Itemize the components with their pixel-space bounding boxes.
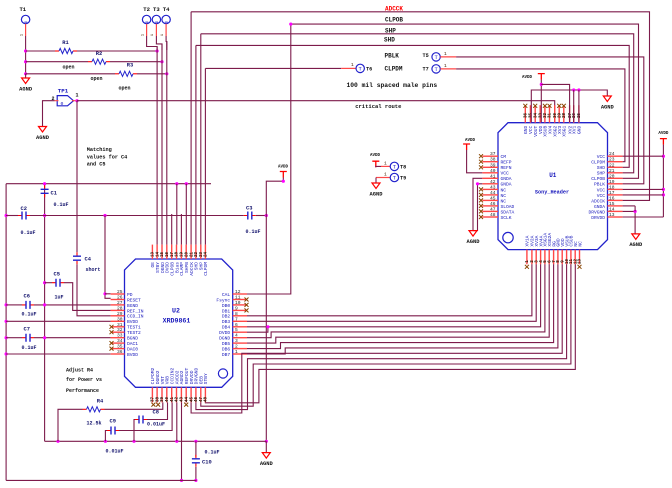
svg-text:AGND: AGND xyxy=(601,104,615,110)
no-connect X on U2 bottom pin xyxy=(156,403,160,407)
junction R1/T2 vertical xyxy=(156,49,159,52)
pin 11 of U1 bottom xyxy=(570,250,572,265)
pin 39 of U2 bottom xyxy=(161,387,163,402)
wire R4 left xyxy=(58,409,83,441)
svg-text:18: 18 xyxy=(176,252,180,258)
pin 45 of U2 bottom xyxy=(190,387,192,402)
svg-text:AGND: AGND xyxy=(467,239,481,245)
svg-text:T7: T7 xyxy=(423,67,429,73)
svg-text:2: 2 xyxy=(235,344,238,350)
svg-text:32: 32 xyxy=(544,113,548,119)
svg-text:T3: T3 xyxy=(153,6,160,13)
svg-text:28: 28 xyxy=(117,305,123,311)
wire BVDD horizontal rail y183 xyxy=(6,183,211,185)
wire T4 jog to vertical xyxy=(165,36,168,50)
wire U1 DRVGND to AGND xyxy=(623,211,636,234)
junction C10 top xyxy=(194,440,197,443)
pin 38 REFP of U1 xyxy=(482,161,498,163)
wire U2 bottom pin6 to AGND rail xyxy=(176,402,178,441)
junction VCC17 xyxy=(662,193,665,196)
svg-text:30: 30 xyxy=(554,113,558,119)
junction rail/C6 xyxy=(43,303,46,306)
pin 23 of U2 top xyxy=(200,245,202,259)
wire U1 VCC17 to AVDD xyxy=(623,194,664,196)
svg-text:41: 41 xyxy=(171,397,175,403)
pin 1 stub of T2 xyxy=(146,24,148,36)
junction R2/T3 vertical xyxy=(160,60,163,63)
svg-text:1uF: 1uF xyxy=(55,295,64,301)
svg-text:XV4: XV4 xyxy=(547,125,553,134)
pin 43 NC of U1 xyxy=(482,188,498,190)
svg-text:1: 1 xyxy=(351,62,354,68)
svg-text:43: 43 xyxy=(490,184,496,190)
junction R4 branch xyxy=(56,440,59,443)
svg-text:1: 1 xyxy=(384,172,387,178)
svg-text:CLPDM: CLPDM xyxy=(385,65,403,72)
pin 41 of U2 bottom xyxy=(171,387,173,402)
svg-text:39: 39 xyxy=(161,397,165,403)
no-connect X on U1 left pin xyxy=(479,209,483,213)
svg-text:AVDD: AVDD xyxy=(658,132,669,136)
wire data bus net DB6 U2 to U1 xyxy=(247,264,554,348)
svg-text:37: 37 xyxy=(152,397,156,403)
wire to AGND bottom center xyxy=(265,441,267,452)
svg-text:29: 29 xyxy=(117,311,123,317)
pin 8 DB2 of U2 xyxy=(233,315,247,317)
ground AGND xyxy=(632,234,640,240)
resistor R1 xyxy=(55,50,59,52)
no-connect X on U2 right pin xyxy=(245,308,249,312)
svg-text:TEST1: TEST1 xyxy=(127,325,141,331)
capacitor C1 xyxy=(44,185,46,197)
svg-text:46: 46 xyxy=(490,201,496,207)
pin 2 of U1 bottom xyxy=(531,250,533,265)
svg-text:BVDD: BVDD xyxy=(127,319,138,325)
pin 35 of U1 top xyxy=(529,105,531,123)
wire bottom rail y480 xyxy=(6,479,196,481)
svg-text:36: 36 xyxy=(117,349,123,355)
no-connect X on U2 left pin xyxy=(110,347,114,351)
pin 32 of U1 top xyxy=(544,105,546,123)
svg-text:0.1uF: 0.1uF xyxy=(22,312,37,318)
svg-text:21: 21 xyxy=(609,168,615,174)
svg-text:DRVDD: DRVDD xyxy=(591,215,605,221)
svg-text:DB3: DB3 xyxy=(222,319,231,325)
pin 42 of U2 bottom xyxy=(176,387,178,402)
pin 1 of U1 bottom xyxy=(526,250,528,265)
wire C8 to U2 bottom pin4 xyxy=(147,402,168,419)
pin 44 of U2 bottom xyxy=(185,387,187,402)
wire U1 VCC24 to AVDD xyxy=(623,155,664,157)
svg-text:SDATA: SDATA xyxy=(501,209,515,215)
svg-text:38: 38 xyxy=(490,157,496,163)
junction C10 bottom rail xyxy=(194,479,197,482)
svg-text:VCC: VCC xyxy=(597,193,606,199)
svg-text:0.1uF: 0.1uF xyxy=(54,202,69,208)
connector U1 Sony_Header body xyxy=(498,123,608,250)
svg-text:1: 1 xyxy=(444,63,447,69)
pin 22 SHD of U1 xyxy=(608,166,623,168)
ground AGND xyxy=(22,78,30,84)
wire stub U2 top pin7 xyxy=(180,214,182,245)
pin 37 CM of U1 xyxy=(482,155,498,157)
svg-text:VCC: VCC xyxy=(501,171,510,177)
svg-text:PBLK: PBLK xyxy=(385,53,400,60)
svg-text:10: 10 xyxy=(235,300,241,306)
svg-text:C7: C7 xyxy=(24,327,30,333)
pin 5 of U1 bottom xyxy=(544,250,546,265)
wire C9 to U2 bottom pin5 xyxy=(119,402,172,430)
wire bus net from U2 bottom pin 45 to U1 xyxy=(191,264,562,413)
pin 48 of U2 bottom xyxy=(204,387,206,402)
svg-text:RESET: RESET xyxy=(127,297,141,303)
pin 10 of U1 bottom xyxy=(566,250,568,265)
pin 15 of U2 top xyxy=(161,245,163,259)
pin 1 stub of T9 xyxy=(376,177,390,179)
svg-text:3: 3 xyxy=(235,338,238,344)
svg-text:short: short xyxy=(86,267,101,273)
svg-text:25: 25 xyxy=(117,289,123,295)
pin 2 DB6 of U2 xyxy=(233,348,247,350)
pin 5 DVDD of U2 xyxy=(233,331,247,333)
wire GNDA15 join DRVGND xyxy=(634,206,636,212)
capacitor C5 xyxy=(52,282,64,284)
pin 7 DB3 of U2 xyxy=(233,320,247,322)
svg-text:19: 19 xyxy=(609,179,615,185)
pin 12 of U1 bottom xyxy=(574,250,576,265)
svg-text:33: 33 xyxy=(117,333,123,339)
pin 1 stub of T3 xyxy=(155,24,157,36)
pin 21 SHP of U1 xyxy=(608,172,623,174)
svg-text:AGND: AGND xyxy=(36,135,50,141)
junction CAL vertical / bottom rail xyxy=(265,440,268,443)
svg-text:AVDD: AVDD xyxy=(278,165,289,169)
svg-text:T6: T6 xyxy=(366,67,372,73)
wire C7 to BGND pin34 xyxy=(34,337,111,339)
test point T7 xyxy=(432,65,440,73)
svg-text:U1: U1 xyxy=(549,172,557,179)
svg-text:REFP: REFP xyxy=(501,160,512,166)
svg-text:18: 18 xyxy=(609,184,615,190)
svg-text:AVDD: AVDD xyxy=(522,76,533,80)
junction VCC18 xyxy=(662,188,665,191)
svg-text:SLOAD: SLOAD xyxy=(501,204,515,210)
junction TP1 pin1 xyxy=(75,99,78,102)
wire AVDD to T8 xyxy=(376,165,381,168)
svg-text:C2: C2 xyxy=(21,206,27,212)
junction C9 branch xyxy=(104,440,107,443)
wire net CLPDM right part to U1 xyxy=(456,69,625,162)
pin 30 BVDD of U2 xyxy=(111,320,125,322)
svg-text:41: 41 xyxy=(490,173,496,179)
pin 42 GNDA of U1 xyxy=(482,183,498,185)
wire to AGND xyxy=(25,74,27,78)
svg-text:48: 48 xyxy=(205,397,209,403)
pin 24 of U2 top xyxy=(204,245,206,259)
pin 21 of U2 top xyxy=(190,245,192,259)
pin 1 marker circle of U1 xyxy=(503,232,513,242)
pin 19 PBLK of U1 xyxy=(608,183,623,185)
pin 11 Fsync of U2 xyxy=(233,299,247,301)
svg-text:DGND: DGND xyxy=(219,336,230,342)
svg-text:22: 22 xyxy=(609,162,615,168)
svg-text:31: 31 xyxy=(117,322,123,328)
svg-text:Fsync: Fsync xyxy=(216,297,230,303)
pin 27 of U1 top xyxy=(569,105,571,123)
wire net CAL up to CLPOB xyxy=(247,24,291,294)
wire T3 jog to vertical xyxy=(156,36,162,50)
no-connect X on U1 bottom pin 1 xyxy=(525,265,529,269)
svg-text:29: 29 xyxy=(558,113,562,119)
wire C3 to AVDD vert xyxy=(256,215,266,217)
svg-text:1: 1 xyxy=(235,349,238,355)
pin 46 SLOAD of U1 xyxy=(482,205,498,207)
pin 28 REF_IN of U2 xyxy=(111,309,125,311)
svg-text:GND: GND xyxy=(577,125,583,134)
svg-text:DB0: DB0 xyxy=(222,303,231,309)
svg-text:R1: R1 xyxy=(62,40,68,46)
wire AVDD right vertical xyxy=(662,145,664,217)
pin 6 DB4 of U2 xyxy=(233,326,247,328)
svg-text:14: 14 xyxy=(156,252,160,258)
pin 9 of U1 bottom xyxy=(561,250,563,265)
capacitor C8 xyxy=(135,419,147,421)
no-connect X on U1 bottom pin 13 xyxy=(578,265,582,269)
capacitor C2 xyxy=(18,215,30,217)
resistor R3 xyxy=(115,73,119,75)
pin 1 stub of T4 xyxy=(165,24,167,36)
wire data bus net DGND U2 to U1 xyxy=(247,264,545,337)
test point T1 circle xyxy=(21,15,29,23)
svg-text:23: 23 xyxy=(609,157,615,163)
svg-text:40: 40 xyxy=(490,168,496,174)
pin 27 BGND of U2 xyxy=(111,304,125,306)
wire C10 top lead xyxy=(195,441,197,457)
svg-text:13: 13 xyxy=(579,259,583,265)
svg-text:Sony_Header: Sony_Header xyxy=(535,189,569,195)
svg-text:NC: NC xyxy=(577,241,583,247)
no-connect X on U2 right pin xyxy=(245,298,249,302)
pin 30 of U1 top xyxy=(554,105,556,123)
junction CAL/CLPOB xyxy=(289,23,292,26)
svg-text:6: 6 xyxy=(235,322,238,328)
pin 36 of U1 top xyxy=(524,105,526,123)
svg-text:100 mil spaced male pins: 100 mil spaced male pins xyxy=(347,82,438,89)
svg-text:16: 16 xyxy=(609,195,615,201)
pin 45 NC of U1 xyxy=(482,199,498,201)
pin 18 VCC of U1 xyxy=(608,188,623,190)
svg-text:15: 15 xyxy=(161,252,165,258)
svg-text:AGND: AGND xyxy=(629,242,643,248)
pin 1 stub of T5 xyxy=(440,56,456,58)
svg-text:16: 16 xyxy=(166,252,170,258)
pin 33 of U1 top xyxy=(539,105,541,123)
svg-text:values for C4: values for C4 xyxy=(87,154,127,160)
test point T2 circle xyxy=(142,15,150,23)
wire SHP left vertical to U2 xyxy=(200,34,202,245)
svg-text:27: 27 xyxy=(117,300,123,306)
wire rail to BVDD pin36 xyxy=(6,353,111,355)
pin 13 of U1 bottom xyxy=(579,250,581,265)
pin 1 stub of T6 xyxy=(341,67,356,69)
no-connect X on U1 left pin xyxy=(479,160,483,164)
wire T1 to ladder xyxy=(25,36,27,74)
wire R2 left xyxy=(26,61,88,63)
op-amp U2 XRD9861 body xyxy=(125,259,233,387)
pin 38 of U2 bottom xyxy=(156,387,158,402)
svg-text:15: 15 xyxy=(609,201,615,207)
pin 24 VCC of U1 xyxy=(608,155,623,157)
resistor R2 xyxy=(88,61,92,63)
wire R2 to vertical xyxy=(110,61,162,63)
test point T8 circle xyxy=(390,162,398,170)
wire SHD left vertical to U2 xyxy=(195,45,197,244)
junction PD branch xyxy=(103,214,106,217)
junction PD xyxy=(103,292,106,295)
svg-text:for Power vs: for Power vs xyxy=(66,377,102,383)
svg-text:XSG1: XSG1 xyxy=(562,125,568,136)
svg-text:C1: C1 xyxy=(51,190,57,196)
junction GND rail pin11 xyxy=(572,88,575,91)
wire R1 left xyxy=(26,50,55,52)
junction R3/T4 vertical xyxy=(165,72,168,75)
svg-text:23: 23 xyxy=(200,252,204,258)
test point T3 circle xyxy=(152,15,160,23)
pin 16 ADCCK of U1 xyxy=(608,199,623,201)
no-connect X on U2 left pin xyxy=(110,325,114,329)
capacitor C7 xyxy=(22,337,34,339)
wire C5 to REF_IN xyxy=(64,283,111,311)
wire bus net from U2 bottom pin 47 to U1 xyxy=(201,264,571,406)
no-connect X on U1 top pin xyxy=(533,104,537,108)
junction rail/C7 xyxy=(43,336,46,339)
junction rail/C5 xyxy=(43,281,46,284)
svg-text:STBY: STBY xyxy=(203,373,209,384)
wire stub U2 top pin5 xyxy=(171,214,173,245)
wire net PBLK to U1 xyxy=(456,57,644,184)
pin 22 of U2 top xyxy=(195,245,197,259)
pin 39 REFN of U1 xyxy=(482,166,498,168)
svg-text:0.1uF: 0.1uF xyxy=(246,229,261,235)
svg-text:C10: C10 xyxy=(202,460,212,466)
wire rail to U2 top pin6 xyxy=(176,184,178,245)
wire U1 GNDA15 xyxy=(623,205,636,207)
wire T2 jog to vertical xyxy=(147,36,158,50)
no-connect X on U2 left pin xyxy=(110,341,114,345)
svg-text:CLPDM: CLPDM xyxy=(203,262,209,276)
svg-text:TP1: TP1 xyxy=(58,88,69,95)
power AVDD xyxy=(538,74,545,80)
no-connect X on U1 left pin xyxy=(479,165,483,169)
pin 23 CLPDM of U1 xyxy=(608,161,623,163)
wire R4 to U2 bottom pin3 xyxy=(105,402,163,409)
svg-text:TEST2: TEST2 xyxy=(127,330,141,336)
wire AVDD stem to U1 top pin xyxy=(540,80,542,122)
svg-text:NC: NC xyxy=(501,198,507,204)
svg-text:open: open xyxy=(118,86,130,92)
wire U1 DRVDD to AVDD vertical xyxy=(623,216,664,218)
svg-text:34: 34 xyxy=(534,113,538,119)
svg-text:39: 39 xyxy=(490,162,496,168)
wire AVDD to U1 top pin10 xyxy=(541,84,569,122)
svg-text:13: 13 xyxy=(609,212,615,218)
wire C7 left xyxy=(6,337,22,339)
wire T2/R1 net vertical to U2 pin xyxy=(156,47,158,245)
svg-text:0.1uF: 0.1uF xyxy=(205,450,220,456)
pin 13 DRVDD of U1 xyxy=(608,216,623,218)
svg-text:32: 32 xyxy=(117,327,123,333)
svg-text:critical route: critical route xyxy=(355,103,402,110)
svg-text:DAC1: DAC1 xyxy=(127,341,138,347)
wire net SHD xyxy=(196,45,629,167)
svg-text:open: open xyxy=(62,65,74,71)
resistor R4 xyxy=(83,408,87,410)
svg-text:AVDD: AVDD xyxy=(465,139,476,143)
pin 1 stub of T8 xyxy=(381,165,390,167)
wire TP1 node down to C4 xyxy=(76,101,78,253)
svg-text:17: 17 xyxy=(609,190,615,196)
svg-text:and C5: and C5 xyxy=(87,162,106,168)
pin 41 GNDA of U1 xyxy=(482,177,498,179)
wire R1 to T2 net xyxy=(77,50,157,52)
svg-text:GNDA: GNDA xyxy=(594,204,605,210)
svg-text:SHD: SHD xyxy=(597,165,606,171)
no-connect X on U2 left pin xyxy=(110,330,114,334)
svg-text:Matching: Matching xyxy=(87,147,112,153)
svg-text:1: 1 xyxy=(444,51,447,57)
svg-text:C8: C8 xyxy=(153,409,159,415)
svg-text:21: 21 xyxy=(190,252,194,258)
pin 26 RESET of U2 xyxy=(111,299,125,301)
power AVDD xyxy=(660,139,667,145)
pin 25 PD of U2 xyxy=(111,293,125,295)
pin 36 BVDD of U2 xyxy=(111,353,125,355)
svg-text:46: 46 xyxy=(195,397,199,403)
svg-text:BGND: BGND xyxy=(127,336,138,342)
svg-text:T5: T5 xyxy=(423,53,429,59)
svg-text:1: 1 xyxy=(384,160,387,166)
no-connect X on U1 left pin xyxy=(479,215,483,219)
svg-text:19: 19 xyxy=(181,252,185,258)
pin 17 of U2 top xyxy=(171,245,173,259)
pin 15 GNDA of U1 xyxy=(608,205,623,207)
pin 44 NC of U1 xyxy=(482,194,498,196)
pin 29 CCD_IN of U2 xyxy=(111,315,125,317)
wire net ADCCK xyxy=(191,12,649,201)
pin 7 of U1 bottom xyxy=(553,250,555,265)
svg-text:PD: PD xyxy=(127,292,133,298)
svg-text:CCD_IN: CCD_IN xyxy=(127,314,144,320)
wire C5 left xyxy=(45,282,52,284)
wire CLPDM left vertical to U2 xyxy=(204,68,206,244)
svg-text:REFN: REFN xyxy=(501,165,512,171)
pin 14 DRVGND of U1 xyxy=(608,210,623,212)
wire U1 VCC18 to AVDD xyxy=(623,188,664,190)
svg-text:0: 0 xyxy=(61,101,64,107)
pin 16 of U2 top xyxy=(166,245,168,259)
wire U1 GNDA pin42 to AGND xyxy=(473,184,482,231)
svg-text:7: 7 xyxy=(235,316,238,322)
ground AGND xyxy=(39,127,47,133)
wire T4/R3 net vertical to U2 pin xyxy=(166,42,168,245)
svg-text:SHD: SHD xyxy=(384,37,395,44)
pin 3 DB5 of U2 xyxy=(233,342,247,344)
pin 47 of U2 bottom xyxy=(200,387,202,402)
pin 34 of U1 top xyxy=(534,105,536,123)
wire data bus net DB5 U2 to U1 xyxy=(247,264,549,343)
wire GND rail to pin11 xyxy=(573,90,575,122)
junction U2 pin42 vert xyxy=(175,440,178,443)
